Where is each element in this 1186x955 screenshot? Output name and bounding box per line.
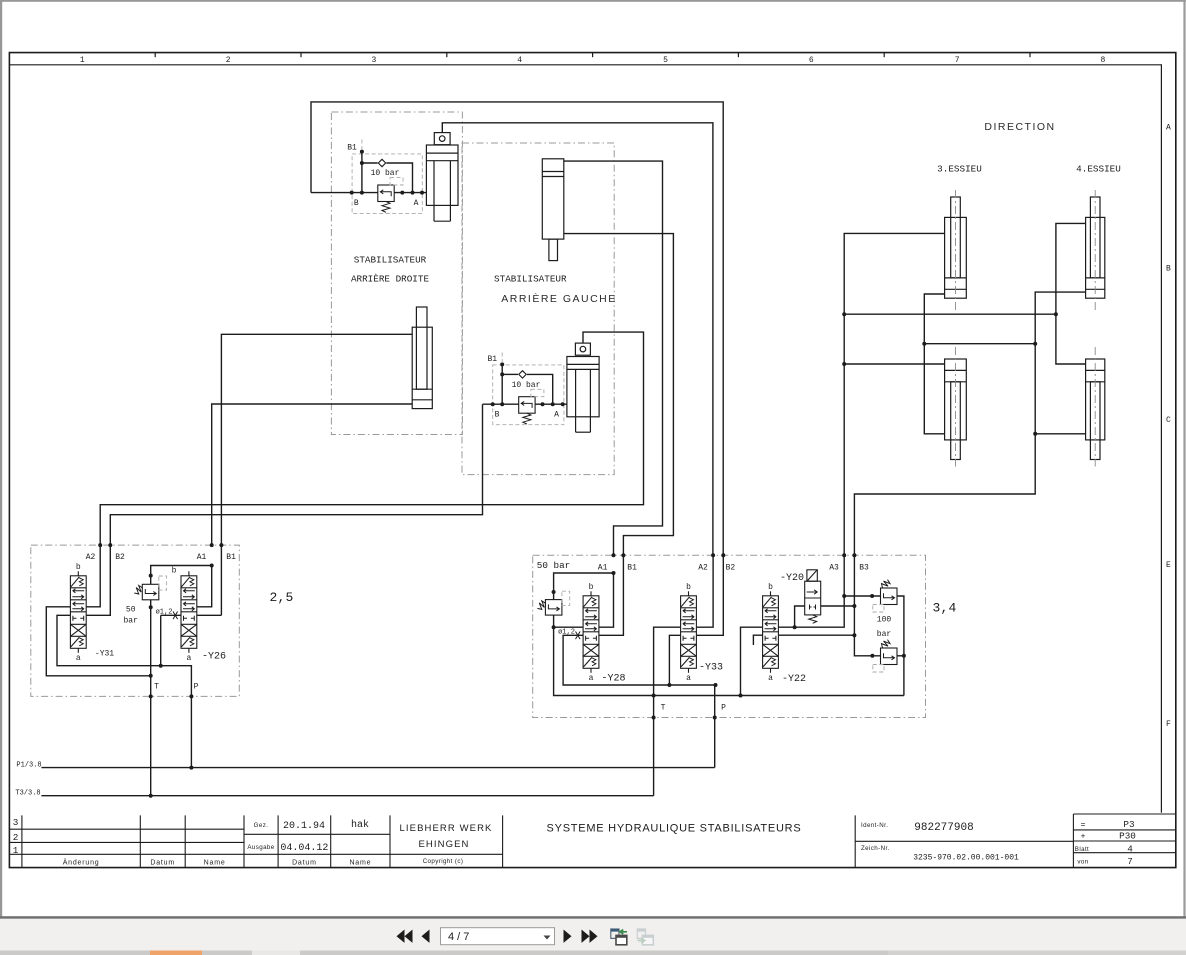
svg-text:1: 1 xyxy=(13,845,19,856)
node 3,4 top port x=613.5 xyxy=(612,553,616,557)
svg-text:20.1.94: 20.1.94 xyxy=(283,821,325,832)
wire B3 into -Y22 xyxy=(779,555,855,635)
node direction node 1035.2,433.8 xyxy=(1033,432,1037,436)
valve -Y33 (4/3 directional solenoid valve) xyxy=(681,591,697,673)
node 2,5 top port x=100.2 xyxy=(98,543,102,547)
valve -Y20 (2/2 solenoid) xyxy=(805,570,821,624)
svg-text:A1: A1 xyxy=(197,553,207,562)
svg-text:Ident-Nr.: Ident-Nr. xyxy=(861,822,888,829)
svg-text:=: = xyxy=(1081,821,1086,830)
viewer window border left xyxy=(0,0,2,918)
drawing frame inner lines xyxy=(9,65,1161,813)
svg-text:A2: A2 xyxy=(698,564,708,573)
node A3 tap 596 xyxy=(842,594,846,598)
svg-text:2,5: 2,5 xyxy=(269,590,293,605)
svg-text:B1: B1 xyxy=(226,553,236,562)
node 100bar in node xyxy=(870,594,874,598)
wire cross link top xyxy=(844,313,1056,315)
relief valve 100bar upper xyxy=(881,580,898,605)
svg-text:a: a xyxy=(186,654,191,663)
svg-text:b: b xyxy=(686,583,691,592)
node A1 tap xyxy=(210,564,214,568)
svg-text:F: F xyxy=(1166,720,1171,729)
node direction node 844.2,314.2 xyxy=(842,312,846,316)
svg-text:-Y33: -Y33 xyxy=(699,663,723,674)
wire P1/3.8 line xyxy=(41,767,714,769)
wire clevis to A2 manifold xyxy=(442,123,713,555)
svg-text:50: 50 xyxy=(126,606,136,615)
wire -Y31 left A to T xyxy=(46,607,150,676)
svg-text:+: + xyxy=(1081,832,1086,841)
valve -Y31 (4/3 directional solenoid valve) xyxy=(70,571,86,653)
node orifice join xyxy=(159,664,163,668)
wire A3 riser / axle3-upper top port xyxy=(844,233,944,555)
wire A1 into -Y28 xyxy=(599,573,614,627)
svg-text:Name: Name xyxy=(204,860,226,867)
wire B1 riser gauche xyxy=(501,364,503,404)
svg-text:3,4: 3,4 xyxy=(932,601,956,616)
svg-text:Blatt: Blatt xyxy=(1075,846,1089,853)
wire A1 into -Y26 xyxy=(197,566,212,607)
wire P line (2,5) xyxy=(190,696,192,767)
node P1 join 2,5 xyxy=(189,766,193,770)
svg-text:Datum: Datum xyxy=(150,860,175,867)
dashed pilot box pilot 100bar lower xyxy=(873,665,884,673)
wire B2 into -Y33 xyxy=(697,555,724,635)
svg-text:a: a xyxy=(589,674,594,683)
relief valve 10bar droite xyxy=(378,185,394,212)
svg-text:4 / 7: 4 / 7 xyxy=(448,931,469,943)
svg-text:04.04.12: 04.04.12 xyxy=(280,843,328,854)
svg-text:B: B xyxy=(495,410,500,419)
svg-text:10 bar: 10 bar xyxy=(512,381,541,390)
svg-text:4: 4 xyxy=(1127,843,1133,854)
wire axle4 upper top to axle4 lower top xyxy=(1056,223,1086,364)
node 3,4 top port x=723.3 xyxy=(721,553,725,557)
wire 100bar upper right xyxy=(897,596,904,696)
icon previous-view (enabled) xyxy=(611,929,627,945)
wire A2 into -Y33 xyxy=(697,555,714,627)
dashed pilot box pilot droite xyxy=(352,154,422,214)
svg-text:SYSTEME HYDRAULIQUE STABILISAT: SYSTEME HYDRAULIQUE STABILISATEURS xyxy=(547,823,802,835)
svg-text:-Y26: -Y26 xyxy=(202,652,226,663)
pilot stub above B1 gauche xyxy=(501,353,503,364)
svg-text:T: T xyxy=(661,703,666,712)
wire main B-A droite xyxy=(311,192,378,194)
svg-text:3: 3 xyxy=(13,817,19,828)
svg-text:STABILISATEUR: STABILISATEUR xyxy=(494,274,567,285)
node direction node 1035.2,343.7 xyxy=(1033,342,1037,346)
dashed pilot box pilot stub gauche xyxy=(531,389,544,396)
svg-text:B1: B1 xyxy=(347,144,357,153)
wire main A droite xyxy=(394,192,426,194)
wire -Y33 left b xyxy=(669,635,680,685)
relief valve 10bar gauche xyxy=(519,397,535,424)
svg-text:8: 8 xyxy=(1100,56,1105,65)
cylinder axle4 lower (steering) xyxy=(1086,347,1105,467)
dashed pilot box pilot gauche xyxy=(493,365,564,425)
wire A3 to 100bar xyxy=(844,595,880,597)
dashed enclosure manifold 3,4 xyxy=(533,555,926,717)
viewer window border right xyxy=(1183,0,1185,918)
svg-text:B1: B1 xyxy=(627,564,637,573)
node 2,5 top port x=221.4 xyxy=(219,543,223,547)
wire check to A droite xyxy=(386,163,412,193)
ruler column ticks xyxy=(155,53,1030,58)
icon next-view (disabled) xyxy=(637,929,653,945)
node A1 tap (3,4) xyxy=(612,571,616,575)
svg-text:T3/3.8: T3/3.8 xyxy=(15,790,40,798)
svg-text:3.ESSIEU: 3.ESSIEU xyxy=(937,164,982,175)
node 50bar pilot node xyxy=(149,574,153,578)
wire B1 of 2,5 to cylinder top xyxy=(221,334,412,545)
wire axle3 lower top port xyxy=(844,363,944,365)
node droite wire x=402.3 xyxy=(400,191,404,195)
orifice 1,2 (2,5) xyxy=(173,612,178,620)
wire cross link mid xyxy=(924,343,1035,345)
svg-text:P30: P30 xyxy=(1119,830,1136,841)
wire B1 down xyxy=(220,545,222,615)
svg-text:ARRIÈRE GAUCHE: ARRIÈRE GAUCHE xyxy=(501,292,617,305)
nav last-page button xyxy=(582,930,598,943)
svg-text:C: C xyxy=(1166,416,1171,425)
wire 100bar lower right xyxy=(897,655,904,657)
check valve droite (10 bar) xyxy=(378,159,385,166)
svg-text:B2: B2 xyxy=(115,553,125,562)
wire B1 riser droite xyxy=(361,152,363,193)
svg-text:4: 4 xyxy=(517,56,522,65)
svg-text:DIRECTION: DIRECTION xyxy=(984,121,1055,133)
node droite wire x=412.5 xyxy=(411,191,415,195)
svg-text:b: b xyxy=(76,563,81,572)
svg-text:3: 3 xyxy=(371,56,376,65)
check valve gauche (10 bar) xyxy=(519,371,526,378)
node T join xyxy=(149,674,153,678)
wire -Y33 left T xyxy=(654,627,681,796)
svg-text:2: 2 xyxy=(13,832,19,843)
cylinder axle3 upper (steering) xyxy=(945,190,967,310)
node B3 635 xyxy=(852,633,856,637)
relief valve 50bar (3,4) xyxy=(537,600,562,616)
svg-text:Name: Name xyxy=(349,860,371,867)
svg-text:P1/3.8: P1/3.8 xyxy=(16,762,41,770)
svg-text:1: 1 xyxy=(80,56,85,65)
svg-text:B3: B3 xyxy=(859,564,869,573)
svg-text:ARRIÈRE DROITE: ARRIÈRE DROITE xyxy=(351,274,430,285)
wire B1 into -Y28 xyxy=(599,555,623,635)
cylinder axle3 lower (steering) xyxy=(945,347,967,467)
node 903 node xyxy=(902,654,906,658)
wire -Y22 left upper xyxy=(741,627,763,695)
dashed pilot box pilot 50bar 2,5 xyxy=(159,576,167,590)
svg-text:P3: P3 xyxy=(1123,819,1134,830)
wire B3 to 100bar lower xyxy=(854,635,880,656)
node gauche wire x=562.7 xyxy=(561,402,565,406)
svg-text:b: b xyxy=(589,583,594,592)
node droite wire x=422.0 xyxy=(420,191,424,195)
node B3 at Y20 xyxy=(852,604,856,608)
wire axle4 upper bottom / B3 riser xyxy=(854,292,1085,555)
svg-text:P: P xyxy=(721,703,726,712)
svg-text:B: B xyxy=(354,199,359,208)
cylinder stabilizer rear-left upper xyxy=(542,159,564,261)
wire main B-A gauche xyxy=(483,403,519,405)
svg-text:a: a xyxy=(768,674,773,683)
dashed pilot box pilot 100bar upper xyxy=(873,605,884,613)
svg-text:A: A xyxy=(1166,124,1171,133)
wire check branch gauche xyxy=(502,373,518,375)
node P boxedge (3,4) xyxy=(713,716,717,720)
wire T3/3.8 line xyxy=(41,795,653,797)
wire -Y28 left B orifice xyxy=(563,635,715,685)
node droite wire x=361.9 xyxy=(360,191,364,195)
orifice 1,2 (3,4) xyxy=(576,632,581,640)
cylinder stabilizer front-right (rod up) xyxy=(412,307,432,409)
wire P line (3,4) xyxy=(714,685,716,768)
svg-text:6: 6 xyxy=(809,56,814,65)
svg-text:-Y28: -Y28 xyxy=(601,674,625,685)
node gauche wire x=502.2 xyxy=(500,402,504,406)
wire gauche-upper top port to A1 manifold xyxy=(564,161,663,555)
svg-text:-Y31: -Y31 xyxy=(95,650,114,659)
node 3,4 top port x=854.4 xyxy=(852,553,856,557)
svg-text:7: 7 xyxy=(1127,856,1133,867)
svg-text:B2: B2 xyxy=(726,564,736,573)
svg-text:Änderung: Änderung xyxy=(63,859,100,867)
svg-text:7: 7 xyxy=(955,56,960,65)
cylinder stabilizer rear-left xyxy=(567,343,599,432)
wire 50bar top to A1 xyxy=(151,566,212,585)
svg-text:a: a xyxy=(686,674,691,683)
page combo box xyxy=(441,928,555,945)
valve -Y22 (4/3 directional solenoid valve) xyxy=(763,591,779,673)
wire top feed to B2 manifold xyxy=(311,102,723,555)
node T3 join 2,5 xyxy=(149,794,153,798)
cylinder stabilizer rear-right xyxy=(426,133,458,222)
svg-text:Zeich-Nr.: Zeich-Nr. xyxy=(861,845,890,852)
svg-text:P: P xyxy=(194,682,199,691)
node T boxedge (3,4) xyxy=(652,716,656,720)
svg-text:A3: A3 xyxy=(829,564,839,573)
node 685 node2 xyxy=(714,683,718,687)
dashed pilot box pilot stub droite xyxy=(390,178,403,185)
wire 50bar bottom (3,4) xyxy=(554,615,904,695)
svg-text:5: 5 xyxy=(663,56,668,65)
wire orifice to P join xyxy=(160,615,162,665)
dashed enclosure stabilisateur arriere droite xyxy=(331,112,462,435)
svg-text:STABILISATEUR: STABILISATEUR xyxy=(354,254,427,265)
node T boxedge xyxy=(149,694,153,698)
toolbar background xyxy=(0,919,1186,951)
node check branch gauche xyxy=(500,372,504,376)
node 100bar lower in xyxy=(870,654,874,658)
svg-text:LIEBHERR WERK: LIEBHERR WERK xyxy=(400,823,493,834)
wire -Y31 left B to P xyxy=(57,615,191,696)
wire gauche B down to B2 xyxy=(110,404,482,545)
svg-text:B1: B1 xyxy=(487,355,497,364)
node gauche wire x=542.5 xyxy=(541,402,545,406)
svg-text:von: von xyxy=(1077,859,1088,866)
wire B2 into -Y31 xyxy=(86,545,110,615)
node gauche wire x=492.7 xyxy=(491,402,495,406)
wire gauche clevis to A2 long xyxy=(100,332,643,545)
svg-text:10 bar: 10 bar xyxy=(371,169,400,178)
svg-text:-Y22: -Y22 xyxy=(782,674,806,685)
viewer bottom divider xyxy=(0,916,1186,919)
nav first-page button xyxy=(397,930,413,943)
svg-text:Ausgabe: Ausgabe xyxy=(247,844,274,851)
relief valve 50bar (2,5) xyxy=(134,584,159,600)
node B1 droite xyxy=(360,150,364,154)
node 3,4 top port x=713.1 xyxy=(711,553,715,557)
cylinder axle4 upper (steering) xyxy=(1086,190,1105,310)
wire A3 into -Y22 xyxy=(779,555,845,627)
svg-text:T: T xyxy=(154,682,159,691)
svg-text:4.ESSIEU: 4.ESSIEU xyxy=(1076,164,1121,175)
nav next-page button xyxy=(564,930,572,943)
node droite wire x=351.7 xyxy=(350,191,354,195)
svg-text:E: E xyxy=(1166,561,1171,570)
svg-text:100: 100 xyxy=(877,616,892,625)
wire 50bar top to A1 (3,4) xyxy=(554,573,614,600)
wire T line (2,5) xyxy=(150,600,152,796)
svg-text:a: a xyxy=(76,654,81,663)
wire B1 orifice line right xyxy=(197,614,222,616)
nav prev-page button xyxy=(422,930,430,943)
dashed pilot box pilot 50bar 3,4 xyxy=(562,591,570,605)
wire -Y28 left A xyxy=(554,626,583,628)
node 3,4 top port x=844.2 xyxy=(842,553,846,557)
svg-text:ø1,2: ø1,2 xyxy=(558,629,575,637)
wire -Y22 left lower xyxy=(753,635,762,645)
wire -Y20 left port xyxy=(795,606,805,627)
node B1 gauche xyxy=(500,362,504,366)
node Y20 join xyxy=(793,625,797,629)
wire check to A gauche xyxy=(527,374,553,404)
node P boxedge xyxy=(189,694,193,698)
svg-text:-Y20: -Y20 xyxy=(780,573,804,584)
wire B1 orifice line left xyxy=(161,614,181,616)
node 50bar stem (3,4) xyxy=(552,590,556,594)
node 740 node xyxy=(739,694,743,698)
svg-text:b: b xyxy=(768,583,773,592)
taskbar strip right lighter xyxy=(888,951,1186,955)
node direction node 924.3,343.7 xyxy=(922,342,926,346)
wire check branch droite xyxy=(362,162,378,164)
svg-text:3235-970.02.00.001-001: 3235-970.02.00.001-001 xyxy=(913,854,1019,863)
node relief-Y28 junction xyxy=(552,625,556,629)
svg-text:EHINGEN: EHINGEN xyxy=(419,839,470,850)
node T node 695 xyxy=(652,694,656,698)
svg-text:b: b xyxy=(172,567,177,576)
taskbar strip xyxy=(0,951,1186,955)
svg-text:A: A xyxy=(554,410,559,419)
valve -Y28 (4/3 directional solenoid valve) xyxy=(583,591,599,673)
node direction node 844.2,364.0 xyxy=(842,362,846,366)
svg-text:bar: bar xyxy=(877,630,892,639)
wire axle4 lower bottom link xyxy=(1035,433,1085,435)
relief valve 100bar lower xyxy=(881,640,898,665)
svg-text:A1: A1 xyxy=(598,564,608,573)
wire A1 of 2,5 to cylinder bottom xyxy=(212,404,413,545)
wire A2 into -Y31 xyxy=(86,545,100,607)
wire -Y20 right to B3 xyxy=(821,605,855,607)
wire axle3 upper bottom to axle3 lower bottom xyxy=(924,294,944,434)
node check branch droite xyxy=(360,161,364,165)
svg-text:Copyright (c): Copyright (c) xyxy=(423,858,464,865)
title block grid xyxy=(9,814,1175,868)
node 3,4 top port x=623.4 xyxy=(621,553,625,557)
taskbar orange segment xyxy=(150,951,202,955)
pilot stub above B1 droite xyxy=(361,140,363,151)
dashed enclosure manifold 2,5 xyxy=(31,545,240,696)
svg-text:bar: bar xyxy=(123,617,138,626)
svg-text:A: A xyxy=(414,199,419,208)
node direction node 1055.9,314.2 xyxy=(1054,312,1058,316)
valve -Y26 (4/3 directional solenoid valve) xyxy=(181,571,197,653)
node 2,5 top port x=211.7 xyxy=(210,543,214,547)
node T mid xyxy=(149,605,153,609)
wire main A gauche xyxy=(535,403,567,405)
taskbar light segment xyxy=(252,951,300,955)
svg-text:Gez.: Gez. xyxy=(254,822,269,829)
node 2,5 top port x=110.3 xyxy=(108,543,112,547)
svg-text:A2: A2 xyxy=(86,553,96,562)
dashed enclosure stabilisateur arriere gauche xyxy=(462,143,614,475)
node 685 node1 xyxy=(667,683,671,687)
svg-text:B: B xyxy=(1166,265,1171,274)
svg-text:hak: hak xyxy=(351,819,369,831)
viewer window border top xyxy=(0,0,1186,2)
svg-text:ø1,2: ø1,2 xyxy=(156,609,173,617)
svg-text:50 bar: 50 bar xyxy=(537,560,570,571)
wire gauche-upper bottom port to B1 manifold xyxy=(564,234,674,556)
node gauche wire x=552.7 xyxy=(551,402,555,406)
svg-text:982277908: 982277908 xyxy=(914,822,973,834)
svg-text:2: 2 xyxy=(226,56,231,65)
svg-text:Datum: Datum xyxy=(292,860,317,867)
